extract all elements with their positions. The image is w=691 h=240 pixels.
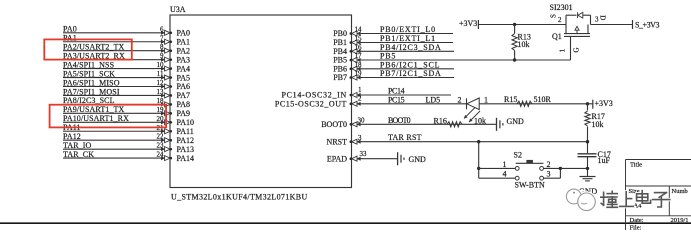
svg-text:NRST: NRST (327, 137, 348, 146)
svg-text:PA13: PA13 (177, 145, 195, 154)
svg-text:+3V3: +3V3 (459, 19, 477, 28)
svg-text:2: 2 (558, 16, 562, 24)
svg-text:PA12: PA12 (177, 136, 195, 145)
svg-text:R16: R16 (434, 116, 447, 125)
svg-text:PB0: PB0 (333, 29, 347, 38)
svg-text:10k: 10k (592, 120, 604, 129)
svg-text:1: 1 (358, 86, 362, 94)
svg-text:30: 30 (358, 117, 366, 125)
svg-text:PA7/SPI1_MOSI: PA7/SPI1_MOSI (63, 87, 120, 96)
svg-text:10: 10 (157, 61, 165, 69)
svg-text:U3A: U3A (170, 5, 186, 14)
svg-text:PB5: PB5 (333, 56, 347, 65)
svg-text:Q1: Q1 (552, 32, 562, 41)
svg-text:PB6/I2C1_SCL: PB6/I2C1_SCL (380, 60, 440, 69)
svg-text:1: 1 (559, 49, 567, 53)
svg-text:12: 12 (157, 79, 165, 87)
svg-text:BOOT0: BOOT0 (388, 116, 411, 125)
svg-text:19: 19 (157, 106, 165, 114)
svg-text:PB4: PB4 (333, 47, 347, 56)
svg-text:TAR RST: TAR RST (388, 133, 422, 142)
svg-text:15: 15 (355, 35, 363, 43)
svg-text:PB1: PB1 (333, 38, 347, 47)
svg-text:PA9: PA9 (177, 109, 191, 118)
svg-text:PA1: PA1 (177, 37, 191, 46)
svg-text:3: 3 (547, 170, 551, 179)
svg-text:2: 2 (358, 95, 362, 103)
svg-text:PA9/USART1_TX: PA9/USART1_TX (63, 105, 125, 114)
svg-text:1uF: 1uF (598, 156, 611, 165)
svg-text:SW-BTN: SW-BTN (515, 180, 545, 189)
svg-text:PC14: PC14 (388, 87, 405, 96)
svg-text:20: 20 (157, 115, 165, 123)
svg-text:U_STM32L0x1KUF4/TM32L071KBU: U_STM32L0x1KUF4/TM32L071KBU (171, 192, 308, 201)
svg-text:BOOT0: BOOT0 (321, 120, 347, 129)
svg-text:GND: GND (507, 117, 525, 126)
svg-text:PA5/SPI1_SCK: PA5/SPI1_SCK (63, 69, 115, 78)
svg-text:17: 17 (355, 52, 363, 60)
svg-text:10k: 10k (518, 40, 530, 49)
svg-text:TAR_CK: TAR_CK (63, 150, 94, 159)
svg-text:PA12: PA12 (63, 132, 81, 141)
svg-text:2: 2 (458, 95, 462, 104)
svg-text:D: D (599, 15, 607, 20)
svg-text:18: 18 (157, 97, 165, 105)
svg-text:PA7: PA7 (177, 91, 191, 100)
svg-text:TAR_IO: TAR_IO (63, 141, 92, 150)
svg-text:PB7/I2C1_SDA: PB7/I2C1_SDA (380, 69, 442, 78)
svg-text:PB7: PB7 (333, 73, 347, 82)
svg-text:PB6: PB6 (333, 65, 347, 74)
svg-text:2: 2 (547, 160, 551, 169)
svg-text:EPAD: EPAD (327, 154, 347, 163)
svg-text:R15: R15 (504, 95, 517, 104)
svg-text:GND: GND (409, 155, 427, 164)
svg-text:S2: S2 (514, 151, 522, 160)
svg-text:PC14-OSC32_IN: PC14-OSC32_IN (281, 91, 347, 100)
svg-text:6: 6 (160, 25, 164, 33)
svg-text:22: 22 (157, 133, 165, 141)
svg-text:3: 3 (595, 16, 599, 24)
svg-text:510R: 510R (534, 95, 552, 104)
svg-text:33: 33 (360, 150, 368, 158)
svg-text:SI2301: SI2301 (550, 3, 573, 12)
svg-text:PA10/USART1_RX: PA10/USART1_RX (63, 114, 129, 123)
svg-text:PA10: PA10 (177, 118, 195, 127)
svg-text:PA2/USART2_TX: PA2/USART2_TX (63, 43, 125, 52)
svg-text:PA3: PA3 (177, 55, 191, 64)
svg-text:PA5: PA5 (177, 73, 191, 82)
svg-text:S_+3V3: S_+3V3 (635, 20, 659, 29)
svg-text:PA14: PA14 (177, 154, 195, 163)
svg-text:Numb: Numb (672, 188, 688, 195)
svg-text:Title: Title (630, 161, 642, 168)
svg-text:16: 16 (355, 44, 363, 52)
svg-text:PB5: PB5 (380, 52, 396, 61)
svg-text:7: 7 (160, 34, 164, 42)
svg-text:PA0: PA0 (63, 25, 77, 34)
svg-text:2019/1: 2019/1 (671, 217, 689, 224)
svg-text:19: 19 (355, 70, 363, 78)
svg-text:PA6: PA6 (177, 82, 191, 91)
svg-text:PC15: PC15 (388, 95, 405, 104)
svg-text:11: 11 (157, 70, 164, 78)
svg-text:9: 9 (160, 52, 164, 60)
svg-text:+3V3: +3V3 (595, 99, 613, 108)
svg-text:8: 8 (160, 43, 164, 51)
svg-text:1: 1 (484, 95, 488, 104)
svg-text:PA8: PA8 (177, 100, 191, 109)
svg-text:13: 13 (157, 88, 165, 96)
svg-text:PB1/EXTI_L1: PB1/EXTI_L1 (380, 34, 436, 43)
svg-text:PA0: PA0 (177, 29, 191, 38)
svg-text:PA4/SPI1_NSS: PA4/SPI1_NSS (63, 60, 114, 69)
svg-text:PA4: PA4 (177, 64, 191, 73)
svg-text:File:: File: (630, 225, 642, 231)
svg-text:14: 14 (355, 26, 363, 34)
svg-text:Date:: Date: (630, 217, 644, 224)
svg-text:PA2: PA2 (177, 46, 191, 55)
svg-text:PC15-OSC32_OUT: PC15-OSC32_OUT (275, 100, 347, 109)
svg-text:4: 4 (503, 170, 507, 179)
svg-text:1: 1 (503, 160, 507, 169)
svg-text:3: 3 (358, 134, 362, 142)
svg-text:PA6/SPI1_MISO: PA6/SPI1_MISO (63, 78, 120, 87)
svg-text:PA1: PA1 (63, 34, 77, 43)
svg-text:18: 18 (355, 61, 363, 69)
svg-text:24: 24 (157, 151, 165, 159)
svg-text:23: 23 (157, 142, 165, 150)
svg-text:G: G (573, 47, 581, 52)
svg-text:LD5: LD5 (426, 95, 441, 104)
svg-text:S: S (550, 14, 558, 18)
svg-text:PA11: PA11 (177, 127, 194, 136)
svg-text:PB4/I2C3_SDA: PB4/I2C3_SDA (380, 43, 442, 52)
svg-text:10k: 10k (474, 116, 486, 125)
svg-text:PB0/EXTI_L0: PB0/EXTI_L0 (380, 25, 436, 34)
